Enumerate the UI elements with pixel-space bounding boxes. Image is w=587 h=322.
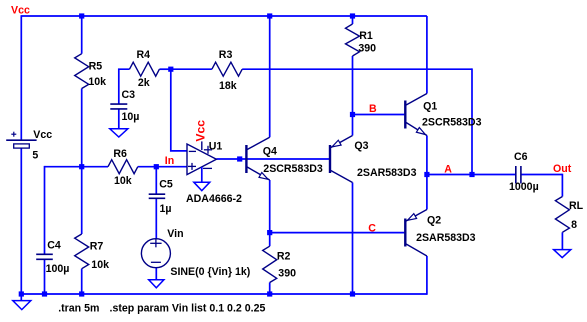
wire C6 to RL (Out) <box>521 174 563 176</box>
svg-text:A: A <box>444 164 452 176</box>
svg-text:Q1: Q1 <box>423 100 437 112</box>
transistor Q2 2SAR583D3 (PNP) <box>404 219 406 247</box>
svg-text:Vcc: Vcc <box>11 4 30 16</box>
svg-text:C3: C3 <box>122 89 136 101</box>
wire Q4 emitter down to node C <box>269 180 271 233</box>
wire op-amp output to Q4 and Q3 bases <box>216 158 330 160</box>
ground below C3 <box>110 129 128 137</box>
svg-text:390: 390 <box>278 268 296 280</box>
op-amp ground <box>194 182 210 191</box>
svg-text:RL: RL <box>569 200 584 212</box>
voltage source Vcc battery <box>6 139 36 141</box>
capacitor C3 <box>110 103 127 105</box>
node A junction Q1/Q2 emitters <box>424 172 429 177</box>
transistor Q4 2SCR583D3 (NPN) <box>245 145 247 173</box>
junction ground rail R2 <box>267 291 272 296</box>
svg-text:In: In <box>165 155 174 167</box>
wire Q3 emitter to node B <box>352 115 354 136</box>
svg-text:Q2: Q2 <box>427 215 441 227</box>
wire node B row to Q1 base <box>353 114 405 116</box>
wire R3 left lead <box>171 68 212 70</box>
svg-text:5: 5 <box>32 149 38 161</box>
svg-text:10k: 10k <box>114 175 132 187</box>
svg-text:Q4: Q4 <box>263 145 277 157</box>
node C junction Q4 emitter R2 <box>267 230 272 235</box>
svg-text:R4: R4 <box>137 49 151 61</box>
junction Vcc rail / R1 <box>350 13 355 18</box>
wire R7 bottom lead <box>81 269 83 294</box>
resistor R5 <box>75 54 89 89</box>
wire Q3 collector to ground rail <box>352 183 354 295</box>
node In junction C5 <box>154 164 159 169</box>
wire In row left segment (C4 top to R6) <box>45 166 109 168</box>
svg-text:ADA4666-2: ADA4666-2 <box>186 193 242 205</box>
junction ground rail R7 <box>79 291 84 296</box>
wire R5 top lead <box>81 16 83 54</box>
svg-text:Vcc: Vcc <box>194 120 208 142</box>
svg-text:Vcc: Vcc <box>33 129 52 141</box>
wire Q4 collector to Vcc rail <box>269 16 271 137</box>
svg-text:R3: R3 <box>219 49 233 61</box>
svg-text:R5: R5 <box>89 60 103 72</box>
svg-text:2SCR583D3: 2SCR583D3 <box>263 163 323 175</box>
wire feedback column down to node A <box>471 68 473 174</box>
svg-text:SINE(0 {Vin} 1k): SINE(0 {Vin} 1k) <box>170 266 250 278</box>
svg-text:Out: Out <box>553 163 572 175</box>
svg-text:.tran 5m: .tran 5m <box>58 302 99 314</box>
svg-text:.step param Vin list 0.1 0.2 0: .step param Vin list 0.1 0.2 0.25 <box>110 302 266 314</box>
resistor R3 <box>212 62 242 76</box>
wire Q2 emitter to node A <box>426 175 428 210</box>
svg-text:C: C <box>368 223 376 235</box>
wire RL bottom lead <box>561 232 563 249</box>
svg-text:2SAR583D3: 2SAR583D3 <box>357 167 417 179</box>
node A junction feedback column <box>469 172 474 177</box>
junction Vcc rail / R5 <box>79 13 84 18</box>
svg-text:R7: R7 <box>90 240 104 252</box>
svg-text:R6: R6 <box>113 148 127 160</box>
wire inverting input from R4/R3 node <box>171 69 187 151</box>
resistor R7 <box>75 234 89 269</box>
wire R5 bottom lead to node In row <box>81 89 83 167</box>
wire RL top lead <box>561 174 563 197</box>
svg-text:10µ: 10µ <box>122 111 140 123</box>
wire Q1 emitter to node A <box>426 136 428 175</box>
wire C5 top lead <box>155 167 157 195</box>
junction ground rail left <box>19 291 24 296</box>
svg-text:2SAR583D3: 2SAR583D3 <box>416 232 476 244</box>
svg-text:C6: C6 <box>514 151 528 163</box>
svg-text:100µ: 100µ <box>46 263 70 275</box>
transistor Q1 2SCR583D3 (NPN) <box>404 101 406 129</box>
svg-text:10k: 10k <box>91 259 109 271</box>
svg-text:390: 390 <box>358 42 376 54</box>
svg-text:R1: R1 <box>359 30 373 42</box>
wire C3 bottom lead <box>118 109 120 129</box>
op-amp U1 ADA4666-2 <box>187 144 216 175</box>
svg-text:R2: R2 <box>277 250 291 262</box>
svg-text:2SCR583D3: 2SCR583D3 <box>422 116 482 128</box>
svg-text:Q3: Q3 <box>354 140 368 152</box>
wire left column lower (battery - to ground rail) <box>20 148 22 294</box>
capacitor C6 <box>515 166 517 184</box>
wire R4 left lead down to C3 <box>119 69 130 104</box>
wire C4 bottom lead <box>44 259 46 294</box>
wire R2 bottom lead <box>269 283 271 295</box>
svg-text:Vin: Vin <box>167 228 183 240</box>
junction Vcc rail / Q4 collector <box>267 13 272 18</box>
resistor R6 <box>108 160 138 174</box>
wire Q1 collector to Vcc rail corner <box>426 16 428 94</box>
svg-text:B: B <box>369 103 377 115</box>
wire Vin to ground <box>155 268 157 280</box>
capacitor C5 <box>149 193 166 195</box>
junction R4 R3 inverting input node <box>168 67 173 72</box>
svg-text:18k: 18k <box>219 80 237 92</box>
wire C4 top column <box>44 166 46 254</box>
ground below Vin <box>149 280 164 288</box>
junction ground rail C4 <box>42 291 47 296</box>
svg-text:8: 8 <box>571 219 577 231</box>
junction op-amp output Q4 base <box>237 156 242 161</box>
junction ground rail Q3 collector <box>350 291 355 296</box>
wire R1 top lead <box>352 16 354 24</box>
svg-text:C5: C5 <box>159 179 173 191</box>
transistor Q3 2SAR583D3 (PNP) <box>329 145 331 173</box>
node B junction <box>350 112 355 117</box>
wire top Vcc rail <box>21 15 427 17</box>
svg-text:1µ: 1µ <box>160 203 172 215</box>
wire node A row to C6 <box>427 174 516 176</box>
wire Q2 collector down to ground rail <box>426 256 428 295</box>
resistor R2 <box>263 246 277 282</box>
wire left column upper (Vcc rail to battery +) <box>20 15 22 140</box>
capacitor C4 <box>36 253 53 255</box>
ground below RL <box>554 250 571 258</box>
wire R7 top lead <box>81 167 83 234</box>
wire R6 right lead to op-amp +in <box>138 166 187 168</box>
resistor R1 <box>346 24 360 56</box>
voltage source Vin <box>141 239 170 268</box>
wire R2 top lead <box>269 233 271 247</box>
ground at bottom left rail <box>20 294 22 301</box>
wire R4 right lead <box>159 68 170 70</box>
wire node C row to Q2 base <box>270 232 405 234</box>
resistor R4 <box>130 62 160 76</box>
resistor RL <box>555 197 569 233</box>
wire C5 to Vin source <box>155 198 157 239</box>
wire R1 bottom lead to node B <box>352 56 354 115</box>
svg-text:10k: 10k <box>88 76 106 88</box>
svg-text:U1: U1 <box>209 140 223 152</box>
junction bias node R5 R6 R7 <box>79 164 84 169</box>
svg-text:1000µ: 1000µ <box>509 181 539 193</box>
wire R3 right lead to feedback column <box>242 68 472 70</box>
svg-text:C4: C4 <box>47 240 61 252</box>
svg-text:2k: 2k <box>138 77 150 89</box>
wire bottom ground rail <box>21 293 427 295</box>
